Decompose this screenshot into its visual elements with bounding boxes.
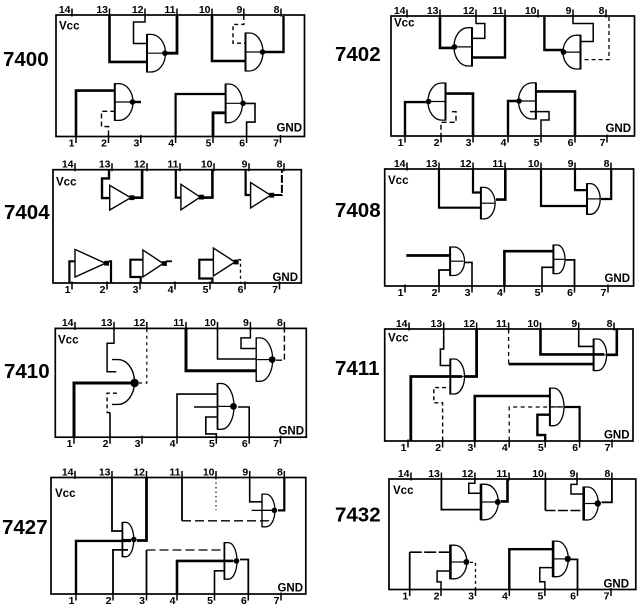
- wire 7410 pin 11 to gate C input: [186, 329, 256, 371]
- 7410 pin 10: [204, 317, 217, 330]
- svg-text:11: 11: [167, 159, 178, 171]
- svg-text:8: 8: [277, 159, 283, 171]
- svg-text:Vcc: Vcc: [56, 177, 77, 189]
- 7432 OR gate A (pins 13,12 -> 11): [481, 484, 501, 521]
- svg-text:6: 6: [241, 595, 247, 607]
- 7400 pin 8: [274, 4, 281, 17]
- 7402 pin 2: [434, 135, 441, 149]
- 7410 GND label: [278, 426, 304, 438]
- svg-text:10: 10: [528, 158, 540, 170]
- 7408 pin 8: [604, 158, 611, 171]
- wire 7400 gate B output to pin 8: [264, 16, 284, 52]
- svg-text:3: 3: [468, 590, 474, 602]
- 7432 pin 6: [570, 588, 577, 602]
- svg-text:Vcc: Vcc: [59, 21, 80, 33]
- IC 7408 package outline: [385, 169, 634, 286]
- svg-text:11: 11: [496, 318, 507, 330]
- svg-text:2: 2: [103, 438, 109, 450]
- 7432 pin 14: [398, 468, 411, 481]
- svg-text:2: 2: [435, 442, 441, 454]
- 7432 GND label: [603, 579, 629, 591]
- 7432 pin 9: [570, 468, 577, 481]
- wire 7400 pin 9 to gate B input: [233, 16, 246, 43]
- svg-text:3: 3: [139, 595, 145, 607]
- 7408 pin 2: [432, 285, 439, 299]
- IC 7411 label: [335, 357, 379, 380]
- wire 7427 pin 4 to gate B middle input: [177, 561, 233, 594]
- 7410 NAND gate B (pins 3,4,5 -> 6): [218, 383, 237, 430]
- svg-text:1: 1: [67, 438, 73, 450]
- 7402 pin 12: [463, 5, 476, 18]
- svg-text:2: 2: [432, 287, 438, 299]
- IC 7432 package outline: [389, 479, 636, 590]
- wire 7410 pin 13 to gate A input: [107, 329, 116, 372]
- 7411 AND gate A (pins 1,2,13 -> 12): [450, 359, 464, 395]
- wire 7400 gate D output to pin 6: [245, 103, 256, 135]
- 7408 AND gate B (pins 1,2 -> 3): [450, 247, 464, 277]
- 7411 pin 11: [496, 318, 509, 331]
- wire 7402 gate A output to pin 1: [405, 102, 429, 135]
- wire 7400 pin 13 to gate A input: [110, 16, 148, 62]
- 7410 pin 2: [103, 436, 110, 450]
- 7404 pin 11: [167, 159, 180, 172]
- wire 7410 pin 5 to gate B input: [206, 417, 218, 437]
- 7408 pin 13: [426, 158, 439, 171]
- wire 7410 pin 4 to gate B input: [177, 394, 218, 437]
- 7402 pin 8: [599, 5, 606, 18]
- wire 7408 pin 4 to gate D input: [504, 251, 553, 285]
- svg-text:8: 8: [277, 317, 283, 329]
- 7402 NOR gate B (pins 5,6 -> 4): [516, 82, 536, 119]
- svg-text:14: 14: [59, 4, 71, 16]
- svg-text:13: 13: [427, 5, 439, 17]
- wire 7402 gate C output to pin 10: [544, 17, 564, 50]
- svg-text:9: 9: [242, 466, 248, 478]
- 7400 pin 6: [239, 135, 246, 149]
- 7411 pin 12: [463, 318, 476, 331]
- svg-text:14: 14: [62, 159, 74, 171]
- svg-text:13: 13: [96, 4, 108, 16]
- wire 7404 pin 9 to inverter 3: [246, 171, 251, 196]
- wire 7432 pin 1 run to gate C input: [410, 551, 451, 553]
- wire 7427 pin 11 run to gate C input: [182, 520, 272, 522]
- 7404 pin 5: [203, 282, 210, 296]
- 7427 NOR gate A (pins 1,2,13 -> 12): [122, 522, 136, 557]
- 7410 pin 5: [209, 436, 216, 450]
- wire 7402 pin 2 to gate A input: [441, 112, 456, 135]
- 7400 NAND gate D (pins 4,5 -> 6): [226, 84, 246, 124]
- 7432 pin 11: [496, 468, 509, 481]
- wire 7410 pin 1 to gate A middle input: [74, 383, 131, 437]
- wire 7400 gate A output to pin 11: [166, 16, 177, 53]
- 7432 pin 12: [462, 468, 475, 481]
- svg-text:13: 13: [99, 159, 111, 171]
- wire 7402 pin 12 to gate D input: [472, 17, 485, 38]
- 7400 pin 12: [132, 4, 145, 17]
- svg-text:10: 10: [203, 466, 215, 478]
- svg-text:2: 2: [100, 284, 106, 296]
- 7411 pin 7: [605, 440, 612, 454]
- 7402 pin 6: [568, 135, 575, 149]
- 7400 pin 7: [273, 135, 280, 149]
- 7400 pin 13: [96, 4, 109, 17]
- 7408 pin 7: [601, 285, 608, 299]
- svg-text:3: 3: [133, 284, 139, 296]
- wire 7402 pin 5 to gate B input: [530, 112, 549, 135]
- wire 7408 gate C output to pin 8: [601, 170, 611, 200]
- wire 7411 pin 11 to gate C input: [508, 330, 510, 365]
- 7404 pin 3: [133, 282, 140, 296]
- svg-text:3: 3: [466, 137, 472, 149]
- 7404 pin 7: [272, 282, 279, 296]
- wire 7432 pin 10 run to gate B input: [545, 510, 583, 512]
- 7427 pin 1: [69, 593, 76, 607]
- wire 7408 pin 10 to gate C input: [541, 170, 587, 207]
- wire 7411 pin 5 to gate B input: [537, 415, 550, 441]
- svg-text:GND: GND: [604, 273, 630, 285]
- wire 7410 pin 9 to gate C input: [241, 329, 256, 349]
- wire 7427 pin 5 to gate B input: [215, 571, 225, 594]
- IC 7408 label: [335, 199, 381, 222]
- wire 7402 pin 9 to gate C input: [573, 17, 593, 42]
- 7402 NOR gate C (pins 9,8 -> 10): [561, 35, 581, 70]
- 7400 pin 9: [236, 4, 243, 17]
- 7411 AND gate B (pins 3,4,5 -> 6): [550, 388, 564, 427]
- IC 7402 package outline: [391, 16, 635, 136]
- 7410 pin 3: [135, 436, 142, 450]
- svg-text:4: 4: [497, 287, 503, 299]
- svg-text:Vcc: Vcc: [394, 18, 415, 30]
- wire 7404 inverter 5 output stub toward pin 4: [166, 260, 172, 262]
- 7410 pin 9: [243, 317, 250, 330]
- svg-text:7402: 7402: [335, 43, 381, 66]
- wire 7432 pin 12 to gate A input: [469, 480, 481, 494]
- wire 7411 pin 11 run to gate C input: [509, 363, 594, 366]
- svg-text:10: 10: [204, 317, 216, 329]
- svg-text:6: 6: [572, 442, 578, 454]
- svg-text:6: 6: [568, 137, 574, 149]
- svg-text:3: 3: [133, 137, 139, 149]
- 7404 inverter 4 (pin 1 -> 2): [75, 249, 109, 277]
- svg-text:9: 9: [568, 158, 574, 170]
- 7402 pin 5: [534, 135, 541, 149]
- 7404 inverter 2 (pin 11 -> 10): [181, 184, 204, 210]
- svg-text:8: 8: [605, 468, 611, 480]
- 7404 GND label: [272, 272, 298, 284]
- svg-text:4: 4: [168, 284, 174, 296]
- svg-text:GND: GND: [272, 272, 298, 284]
- wire 7427 gate C output to pin 8: [278, 478, 284, 510]
- 7427 pin 11: [169, 466, 182, 479]
- svg-text:7: 7: [273, 137, 279, 149]
- wire 7404 inverter 6 output to pin 6: [239, 260, 241, 283]
- 7402 NOR gate A (pins 2,3 -> 1): [426, 83, 446, 121]
- 7411 pin 8: [607, 318, 614, 331]
- svg-text:4: 4: [168, 137, 174, 149]
- svg-text:12: 12: [462, 468, 474, 480]
- svg-text:9: 9: [242, 159, 248, 171]
- wire 7402 pin 3 to gate A input: [446, 94, 474, 135]
- wire 7432 gate C output to pin 3: [470, 562, 476, 589]
- svg-text:9: 9: [236, 4, 242, 16]
- wire 7400 gate C output stub toward pin 3: [134, 101, 141, 103]
- 7427 pin 8: [277, 466, 284, 479]
- wire 7400 pin 1 to gate C input: [76, 91, 115, 136]
- 7404 pin 13: [99, 159, 112, 172]
- IC 7404 label: [4, 201, 50, 224]
- svg-text:7408: 7408: [335, 199, 381, 222]
- IC 7432 label: [335, 504, 381, 527]
- 7427 pin 14: [62, 466, 75, 479]
- 7402 pin 3: [466, 135, 473, 149]
- IC 7402 label: [335, 43, 381, 66]
- 7402 pin 13: [427, 5, 440, 18]
- 7432 pin 5: [538, 588, 545, 602]
- 7432 pin 10: [532, 468, 545, 481]
- svg-text:2: 2: [434, 137, 440, 149]
- wire 7411 pin 9 to gate C input: [579, 330, 594, 347]
- wire 7404 inverter 3 output to pin 8: [274, 171, 282, 196]
- svg-text:7410: 7410: [4, 360, 50, 383]
- wire 7411 pin 10 to gate C middle input: [541, 330, 605, 355]
- wire 7404 pin 5 to inverter 6: [199, 260, 213, 283]
- svg-text:3: 3: [467, 442, 473, 454]
- svg-text:9: 9: [571, 318, 577, 330]
- 7402 pin 11: [492, 5, 505, 18]
- wire 7404 pin 3 to inverter 5: [130, 260, 143, 283]
- 7411 GND label: [604, 430, 630, 442]
- 7400 NAND gate B (pins 10,9 -> 8): [246, 33, 266, 72]
- wire 7402 pin 6 to gate B input: [536, 91, 575, 135]
- wire 7410 pin 2 jog to gate A input: [107, 393, 117, 412]
- wire 7411 pin 4 to gate B middle input: [509, 407, 561, 441]
- svg-text:11: 11: [173, 317, 184, 329]
- 7410 pin 6: [242, 436, 249, 450]
- 7402 Vcc label: [394, 18, 415, 30]
- wire 7404 inverter 4 output to pin 2: [109, 261, 111, 282]
- wire 7427 pin 11 riser: [181, 478, 183, 521]
- IC 7400 package outline: [56, 15, 305, 137]
- svg-text:8: 8: [277, 466, 283, 478]
- 7408 AND gate A (pins 13,12 -> 11): [481, 187, 495, 220]
- svg-text:4: 4: [170, 595, 176, 607]
- 7400 pin 2: [101, 135, 108, 149]
- wire 7432 pin 1 riser: [409, 552, 411, 589]
- wire 7404 pin 1 to inverter 4: [69, 261, 75, 282]
- 7411 pin 5: [538, 440, 545, 454]
- wire 7427 gate B output to pin 6: [240, 560, 248, 594]
- wire 7411 pin 13 to gate A input: [440, 330, 450, 366]
- svg-text:8: 8: [604, 158, 610, 170]
- 7432 pin 8: [605, 468, 612, 481]
- 7400 NAND gate A (pins 13,12 -> 11): [147, 34, 168, 73]
- 7400 NAND gate C (pins 1,2 -> 3): [115, 83, 136, 121]
- svg-text:6: 6: [238, 284, 244, 296]
- svg-text:1: 1: [398, 137, 404, 149]
- wire 7432 pin 13 to gate A input: [441, 480, 481, 510]
- 7410 NAND gate C (pins 9,10,11 -> 8): [256, 337, 275, 381]
- 7404 pin 8: [277, 159, 284, 172]
- 7411 pin 3: [467, 440, 474, 454]
- svg-text:6: 6: [567, 287, 573, 299]
- svg-text:10: 10: [525, 5, 537, 17]
- svg-text:1: 1: [69, 595, 75, 607]
- 7402 GND label: [605, 123, 631, 135]
- 7410 Vcc label: [58, 335, 79, 347]
- 7404 inverter 5 (pin 3 -> 4): [143, 250, 167, 277]
- svg-text:5: 5: [203, 284, 209, 296]
- wire 7427 gate A output to pin 12: [137, 478, 147, 541]
- svg-text:4: 4: [170, 438, 176, 450]
- 7427 pin 9: [242, 466, 249, 479]
- wire 7400 pin 5 to gate D input: [213, 113, 226, 136]
- svg-text:13: 13: [428, 468, 440, 480]
- svg-text:GND: GND: [276, 123, 302, 135]
- svg-text:1: 1: [65, 284, 71, 296]
- svg-text:12: 12: [460, 158, 472, 170]
- wire 7402 gate D output to pin 13: [440, 17, 455, 48]
- svg-text:10: 10: [199, 4, 211, 16]
- svg-text:1: 1: [398, 287, 404, 299]
- 7432 pin 2: [434, 588, 441, 602]
- svg-text:9: 9: [566, 5, 572, 17]
- svg-text:2: 2: [434, 590, 440, 602]
- 7400 pin 3: [133, 135, 140, 149]
- svg-text:7: 7: [273, 438, 279, 450]
- 7404 Vcc label: [56, 177, 77, 189]
- 7404 pin 2: [100, 282, 107, 296]
- wire 7411 gate C output to pin 8: [607, 330, 617, 355]
- svg-text:Vcc: Vcc: [393, 485, 414, 497]
- wire 7432 pin 2 to gate C input: [437, 571, 450, 589]
- 7400 GND label: [276, 123, 302, 135]
- wire 7410 pin 10 to gate C input: [218, 329, 257, 359]
- wire 7411 pin 3 to gate B input: [475, 396, 550, 441]
- svg-text:7: 7: [604, 590, 610, 602]
- 7404 pin 12: [134, 159, 147, 172]
- 7402 pin 14: [394, 5, 407, 18]
- 7400 pin 14: [59, 4, 72, 17]
- svg-text:4: 4: [502, 442, 508, 454]
- 7408 pin 5: [535, 285, 542, 299]
- svg-text:14: 14: [394, 5, 406, 17]
- svg-text:2: 2: [106, 595, 112, 607]
- 7427 pin 12: [133, 466, 146, 479]
- 7427 GND label: [277, 583, 303, 595]
- wire 7408 gate B output to pin 3: [465, 262, 472, 285]
- 7427 NOR gate C (pins 9,10,11 -> 8): [262, 494, 277, 528]
- 7400 pin 1: [69, 135, 76, 149]
- 7432 pin 7: [604, 588, 611, 602]
- 7411 pin 10: [527, 318, 540, 331]
- 7408 pin 3: [465, 285, 472, 299]
- 7400 Vcc label: [59, 21, 80, 33]
- wire 7427 pin 3 riser: [146, 550, 148, 594]
- 7404 inverter 1 (pin 13 -> 12): [110, 185, 135, 210]
- svg-text:4: 4: [501, 137, 507, 149]
- IC 7400 label: [3, 48, 49, 71]
- wire 7410 pin 2 riser: [109, 413, 111, 437]
- IC 7427 package outline: [51, 478, 306, 595]
- 7408 pin 6: [567, 285, 574, 299]
- wire 7427 pin 1 to gate A middle input: [76, 541, 131, 594]
- svg-text:13: 13: [426, 158, 438, 170]
- 7410 pin 12: [134, 317, 147, 330]
- svg-text:4: 4: [502, 590, 508, 602]
- svg-text:13: 13: [101, 317, 113, 329]
- wire 7404 pin 11 to inverter 2: [176, 171, 181, 198]
- wire 7411 pin 1 to gate A middle input: [411, 377, 462, 441]
- 7410 pin 4: [170, 436, 177, 450]
- 7410 pin 14: [62, 317, 75, 330]
- svg-text:7411: 7411: [335, 357, 379, 380]
- 7432 pin 4: [502, 588, 509, 602]
- wire 7411 gate A output to pin 12: [465, 330, 477, 377]
- 7400 pin 10: [199, 4, 212, 17]
- svg-text:7400: 7400: [3, 48, 49, 71]
- svg-text:11: 11: [492, 158, 503, 170]
- wire 7410 pin 3 stub to gate B middle input: [194, 406, 218, 408]
- svg-text:5: 5: [206, 137, 212, 149]
- svg-text:5: 5: [538, 442, 544, 454]
- wire 7427 pin 10 to gate C middle input: [215, 478, 217, 510]
- 7410 NAND gate A (pins 1,2,13 -> 12): [112, 360, 139, 405]
- wire 7400 pin 12 to gate A input: [134, 16, 148, 44]
- 7427 pin 3: [139, 593, 146, 607]
- 7427 pin 2: [106, 593, 113, 607]
- wire 7432 gate B output to pin 8: [602, 480, 612, 503]
- wire 7404 inverter 1 output to pin 12: [134, 171, 142, 198]
- svg-text:GND: GND: [604, 430, 630, 442]
- IC 7410 package outline: [55, 328, 306, 437]
- 7432 OR gate D (pins 4,5 -> 6): [553, 541, 571, 578]
- svg-text:7432: 7432: [335, 504, 381, 527]
- svg-text:GND: GND: [278, 426, 304, 438]
- 7408 pin 9: [568, 158, 575, 171]
- svg-text:11: 11: [164, 4, 175, 16]
- svg-text:10: 10: [532, 468, 544, 480]
- svg-text:11: 11: [496, 468, 507, 480]
- 7400 pin 4: [168, 135, 175, 149]
- svg-text:14: 14: [394, 158, 406, 170]
- svg-text:14: 14: [62, 466, 74, 478]
- svg-text:GND: GND: [603, 579, 629, 591]
- 7432 pin 1: [402, 588, 409, 602]
- svg-text:5: 5: [209, 438, 215, 450]
- 7411 pin 2: [435, 440, 442, 454]
- svg-text:14: 14: [396, 318, 408, 330]
- IC 7404 package outline: [53, 170, 301, 283]
- wire 7432 pin 4 to gate D input: [509, 549, 553, 589]
- wire 7411 pin 2 to gate A input: [434, 388, 451, 441]
- 7402 pin 7: [600, 135, 607, 149]
- svg-text:11: 11: [492, 5, 503, 17]
- wire 7432 pin 10 riser: [544, 480, 546, 511]
- 7408 pin 4: [497, 285, 504, 299]
- svg-text:5: 5: [535, 287, 541, 299]
- svg-text:GND: GND: [277, 583, 303, 595]
- wire 7432 gate D output to pin 6: [571, 559, 578, 589]
- 7404 pin 9: [242, 159, 249, 172]
- wire 7427 pin 3 run to gate B input: [147, 549, 225, 551]
- wire 7427 pin 2 to gate A input: [113, 550, 128, 594]
- 7427 pin 5: [207, 593, 214, 607]
- IC 7411 package outline: [385, 329, 633, 441]
- svg-text:12: 12: [463, 318, 475, 330]
- 7432 OR gate C (pins 1,2 -> 3): [450, 545, 469, 580]
- svg-text:5: 5: [538, 590, 544, 602]
- svg-text:6: 6: [242, 438, 248, 450]
